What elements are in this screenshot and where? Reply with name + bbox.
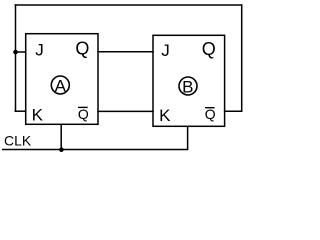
flip-flop B box bbox=[153, 35, 225, 126]
svg-text:K: K bbox=[32, 105, 44, 124]
wire: stub into J input of A bbox=[15, 51, 27, 53]
svg-text:J: J bbox=[35, 40, 44, 59]
flip-flop B identifier circle bbox=[179, 77, 197, 95]
wire: left feedback vertical to J and K of A bbox=[15, 4, 17, 112]
wire: A Q output to B J input bbox=[97, 51, 153, 53]
wire: CLK distribution line bbox=[2, 149, 188, 151]
wire: clock input vertical of B bbox=[187, 126, 189, 150]
node: junction dot at A J branch bbox=[13, 50, 18, 55]
wire: feedback loop top from B Q-bar to left side bbox=[15, 4, 243, 6]
flip-flop A identifier circle bbox=[51, 76, 69, 94]
flip-flop A box bbox=[26, 34, 98, 125]
wire: right vertical from B Q-bar up to top loop bbox=[241, 4, 243, 112]
svg-text:J: J bbox=[161, 41, 170, 60]
wire: stub into K input of A bbox=[15, 110, 27, 112]
wire: clock input vertical of A bbox=[60, 124, 62, 149]
svg-text:CLK: CLK bbox=[4, 133, 32, 149]
svg-text:B: B bbox=[182, 77, 193, 96]
node: junction dot CLK to A clock bbox=[59, 147, 64, 152]
svg-text:Q: Q bbox=[205, 106, 216, 122]
svg-text:Q: Q bbox=[78, 106, 89, 122]
wire: B Q-bar output to right feedback vertical bbox=[224, 110, 243, 112]
svg-text:A: A bbox=[55, 76, 67, 95]
svg-text:Q: Q bbox=[75, 38, 89, 58]
svg-text:Q: Q bbox=[202, 39, 216, 59]
wire: A Q-bar output to B K input bbox=[97, 110, 153, 112]
svg-text:K: K bbox=[159, 106, 171, 125]
